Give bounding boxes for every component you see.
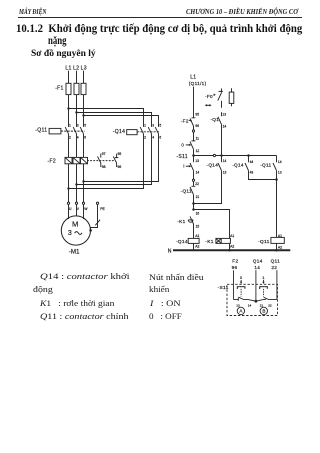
svg-text:14: 14	[196, 171, 200, 175]
wire seal branch Q14 13-14	[194, 156, 222, 204]
legend right col row 4	[149, 312, 182, 321]
svg-text:W: W	[84, 207, 88, 211]
wire U into motor	[68, 204, 70, 219]
wire W into motor	[83, 204, 85, 219]
svg-text:44: 44	[250, 160, 254, 164]
svg-text:22: 22	[271, 265, 277, 270]
wire terminal to S11	[193, 132, 195, 141]
wire S11 to node row	[193, 149, 195, 155]
overload relay F2 aux contact 97-98	[98, 154, 101, 167]
svg-text:Q11: Q11	[271, 258, 281, 263]
svg-text:A2: A2	[278, 245, 282, 249]
button B circle	[260, 307, 267, 314]
svg-text:4: 4	[152, 136, 154, 140]
svg-text:98: 98	[102, 165, 106, 169]
svg-text:11: 11	[196, 137, 200, 141]
contact Q11 NC interlock	[190, 186, 195, 194]
svg-text:14: 14	[248, 303, 252, 307]
overload relay F2 heater 3	[81, 157, 88, 163]
wire Q14 coil to N	[193, 243, 195, 249]
svg-text:I: I	[183, 164, 184, 169]
svg-text:95: 95	[118, 152, 122, 156]
pushbutton S11 OFF contact	[190, 141, 195, 149]
node dot Q14 aux branch	[247, 154, 250, 157]
svg-text:1: 1	[69, 123, 71, 127]
svg-text:16: 16	[196, 211, 200, 215]
legend row 1	[40, 272, 130, 281]
svg-text:96: 96	[195, 124, 199, 128]
pushbutton station dashed enclosure	[227, 284, 278, 315]
contactor Q11 linkage	[61, 130, 85, 132]
contactor Q14 contact pole 1	[140, 127, 143, 134]
wire Q14 aux 43-44 branch	[249, 156, 277, 180]
wire Q11 coil to N	[276, 243, 278, 249]
page header left	[19, 8, 46, 16]
svg-text:A1: A1	[195, 234, 199, 238]
contact F2 NC in control	[190, 118, 195, 126]
svg-text:-F1: -F1	[55, 85, 63, 91]
contactor Q11 contact pole 1	[65, 127, 68, 134]
svg-text:5: 5	[159, 123, 161, 127]
contact Q14 aux 43-44	[245, 163, 249, 171]
wire rail L3 to Q14	[84, 116, 159, 127]
svg-text:L1: L1	[190, 74, 196, 80]
svg-text:-Q11: -Q11	[260, 162, 271, 167]
section title line 1	[16, 23, 302, 35]
svg-text:-Q14: -Q14	[207, 162, 219, 167]
subtitle	[31, 50, 96, 59]
pushbutton S11 ON contact	[190, 163, 194, 171]
svg-text:-Q1: -Q1	[210, 117, 219, 122]
contactor Q14 contact pole 2	[148, 127, 151, 134]
contactor Q11 contact pole 3	[80, 127, 83, 134]
legend right col row 1	[149, 273, 204, 282]
motor terminal U circle	[67, 202, 69, 204]
svg-text:V: V	[77, 207, 80, 211]
svg-text:3: 3	[77, 123, 79, 127]
svg-text:13: 13	[222, 112, 226, 116]
wire node row horizontal	[194, 155, 277, 157]
legend row 2	[33, 285, 53, 294]
node dot seal branch	[220, 154, 223, 157]
wire Q14 return phase 3	[84, 134, 159, 182]
contactor Q11 operator box	[49, 128, 61, 134]
node dot Q11 branch join	[275, 178, 278, 181]
contactor Q14 operator box	[127, 130, 137, 135]
wire phase L3 top drop	[83, 71, 85, 127]
wire K1 coil branch	[194, 210, 230, 239]
node junction dot L2 rail	[75, 111, 77, 113]
svg-text:-M1: -M1	[69, 249, 80, 256]
wire K1 coil to N	[229, 243, 231, 249]
svg-text:13: 13	[223, 171, 227, 175]
svg-text:3: 3	[68, 230, 72, 237]
motor terminal V circle	[75, 202, 77, 204]
svg-text:A1: A1	[230, 234, 234, 238]
contactor Q11 contact pole 2	[73, 127, 76, 134]
wire control main top	[193, 87, 195, 118]
switch F0 operation arrow	[206, 104, 210, 106]
node dot K1 branch	[192, 208, 195, 211]
svg-text:-Q11: -Q11	[181, 189, 192, 194]
fuse F1 pole 2	[74, 83, 79, 94]
node junction dot L1 rail	[67, 107, 69, 109]
svg-text:15: 15	[196, 224, 200, 228]
wire fuse F0 parallel	[231, 88, 233, 106]
overload relay F2 heater 1	[65, 157, 72, 163]
motor M1 circle	[61, 216, 90, 245]
node dot seal return	[192, 202, 195, 205]
svg-text:-K1: -K1	[177, 219, 185, 224]
wire into box from Q14	[255, 270, 257, 301]
contactor Q14 contact pole 3	[155, 127, 158, 134]
wire rail L1 to Q14	[69, 109, 144, 127]
svg-text:-F0: -F0	[205, 94, 213, 99]
svg-text:1: 1	[144, 123, 146, 127]
node dot pushbutton common	[255, 300, 258, 303]
button 1 plunger	[260, 287, 268, 297]
terminal circle 2 on control line	[192, 179, 194, 181]
svg-text:-F2: -F2	[48, 159, 56, 165]
node dot PE on motor frame	[89, 229, 92, 232]
svg-text:13: 13	[278, 171, 282, 175]
svg-text:2: 2	[69, 136, 71, 140]
svg-text:2: 2	[144, 136, 146, 140]
svg-text:F2: F2	[232, 258, 238, 263]
svg-text:3: 3	[152, 123, 154, 127]
overload relay F2 heater 2	[73, 157, 80, 163]
svg-text:A: A	[239, 309, 243, 314]
node junction dot staircase L2	[75, 183, 77, 185]
wire phase L3 contact to overload	[83, 134, 85, 158]
svg-text:21: 21	[196, 195, 200, 199]
fuse F1 pole 3	[81, 83, 86, 94]
svg-text:-Q14: -Q14	[232, 162, 244, 167]
header rule	[18, 17, 302, 18]
svg-text:-Q14: -Q14	[113, 129, 125, 135]
svg-text:L3: L3	[81, 65, 87, 71]
contact Q1 aux	[218, 117, 222, 125]
svg-text:-Q14: -Q14	[176, 239, 188, 245]
wire Q11 NC to junctions	[193, 195, 195, 210]
svg-text:Q14: Q14	[253, 258, 263, 263]
motor PE terminal circle	[96, 202, 98, 204]
button 0 plunger	[237, 287, 245, 297]
motor terminal W circle	[82, 202, 84, 204]
wire phase L2 contact to overload	[76, 134, 78, 158]
svg-text:43: 43	[250, 171, 254, 175]
K1 on-delay symbol	[188, 220, 193, 222]
wire V into motor	[76, 204, 78, 216]
wire main below node row	[193, 156, 195, 163]
node junction dot L3 rail	[82, 114, 84, 116]
wire phase L1 top drop	[68, 71, 70, 127]
wire PE	[91, 204, 98, 229]
legend right col row 2	[149, 285, 169, 294]
svg-text:12: 12	[196, 149, 200, 153]
node junction dot staircase L3	[82, 180, 84, 182]
svg-text:M: M	[72, 219, 78, 228]
fuse F1 pole 1	[66, 83, 71, 94]
button A circle	[237, 307, 244, 314]
button 0 NC contact	[234, 297, 256, 301]
wire F2 to terminal	[193, 126, 195, 130]
contact K1 timed	[190, 216, 194, 224]
coil Q11	[271, 237, 284, 243]
wire phase L1 contact to overload	[68, 134, 70, 158]
fuse F0 body	[229, 92, 234, 103]
coil Q14	[188, 238, 199, 243]
svg-text:L1: L1	[65, 65, 71, 71]
terminal circle on control line	[192, 130, 194, 132]
wire Q14 return phase 1	[69, 134, 144, 189]
wire terminal to Q11 NC	[193, 181, 195, 186]
svg-text:6: 6	[84, 136, 86, 140]
svg-text:(Q11/1): (Q11/1)	[189, 81, 207, 86]
svg-text:-S11: -S11	[176, 154, 188, 160]
svg-text:5: 5	[84, 123, 86, 127]
svg-text:13: 13	[236, 303, 240, 307]
svg-text:14: 14	[223, 159, 227, 163]
legend right col row 3	[150, 299, 181, 308]
svg-text:14: 14	[278, 160, 282, 164]
contactor Q14 linkage	[137, 131, 160, 133]
legend row 3	[40, 299, 114, 308]
svg-text:96: 96	[232, 265, 238, 270]
node junction dot staircase L1	[67, 187, 69, 189]
wire phase L1 overload to motor	[68, 164, 70, 202]
wire rail L2 to Q14	[77, 113, 152, 127]
wire K1 contact to Q14 coil	[193, 224, 195, 238]
wire phase L3 overload to motor	[83, 164, 85, 202]
node dot K1 on N rail	[228, 249, 231, 252]
button 1 NO contact	[256, 297, 277, 301]
N rail	[173, 249, 290, 251]
svg-text:-Q11: -Q11	[35, 127, 47, 133]
svg-text:PE: PE	[100, 207, 105, 211]
svg-text:6: 6	[159, 136, 161, 140]
svg-text:1: 1	[262, 276, 264, 280]
svg-text:14: 14	[223, 125, 227, 129]
svg-text:B: B	[262, 309, 265, 314]
wire Q14 return phase 2	[77, 134, 152, 185]
node dot Q11 on N rail	[275, 249, 278, 252]
svg-text:22: 22	[195, 182, 199, 186]
svg-text:0: 0	[240, 276, 242, 280]
svg-text:4: 4	[77, 136, 79, 140]
wire to terminal circle 2	[193, 171, 195, 180]
page header right	[186, 8, 298, 16]
svg-text:22: 22	[268, 303, 272, 307]
svg-text:13: 13	[195, 159, 199, 163]
switch F0 blade	[218, 91, 223, 100]
svg-text:-Q11: -Q11	[258, 239, 270, 245]
legend row 4	[40, 312, 129, 321]
wire into box from F2	[233, 270, 235, 299]
svg-text:A2: A2	[230, 244, 234, 248]
contact Q14 seal	[218, 163, 222, 171]
wire into box from Q11	[276, 270, 278, 299]
overload relay F2 aux contact 95-96	[113, 154, 118, 167]
overload relay F2 linkage dashed	[87, 160, 114, 162]
svg-text:96: 96	[118, 165, 122, 169]
node dot main at node row	[192, 154, 195, 157]
svg-text:N: N	[168, 248, 172, 254]
svg-text:97: 97	[102, 152, 106, 156]
svg-text:-K1: -K1	[205, 239, 213, 245]
switch fuse F0 branch wire	[221, 89, 223, 155]
svg-text:-F2: -F2	[181, 118, 189, 123]
wire phase L2 top drop	[76, 71, 78, 127]
svg-text:U: U	[69, 207, 72, 211]
PE link slash	[95, 220, 100, 226]
coil K1 timer	[216, 238, 231, 243]
contact Q11 aux 13-14	[273, 163, 277, 171]
terminal circle on node row	[213, 154, 215, 156]
section title line 2	[48, 35, 67, 47]
svg-text:0: 0	[181, 142, 184, 147]
svg-text:14: 14	[254, 265, 260, 270]
svg-text:95: 95	[195, 112, 199, 116]
wire phase L2 overload to motor	[76, 164, 78, 202]
svg-text:L2: L2	[73, 65, 79, 71]
wire Q11 aux 13-14 branch	[276, 156, 278, 238]
svg-text:A2: A2	[195, 244, 199, 248]
svg-text:21: 21	[260, 303, 264, 307]
